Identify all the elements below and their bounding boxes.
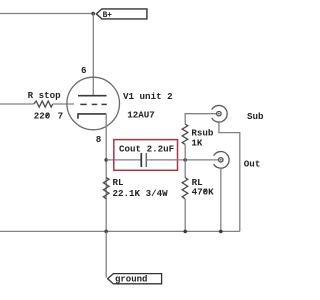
designator label Rsub [191, 128, 214, 139]
capacitor Cout [141, 153, 146, 167]
tube V1 envelope [67, 77, 120, 130]
svg-text:R stop: R stop [28, 90, 62, 101]
svg-text:B+: B+ [103, 12, 113, 20]
value label 470K [192, 186, 215, 197]
tube V1 plate [78, 95, 107, 97]
tube V1 grid (dashed) [80, 103, 107, 105]
designator label RL (right) [192, 177, 204, 188]
wire RL470K down to ground bus [184, 199, 186, 232]
resistor Rsub [182, 124, 188, 144]
wire Cout to output node [146, 159, 218, 161]
tube V1 cathode [78, 114, 106, 119]
wire cathode lead pin 8 down to ground bus [105, 114, 107, 231]
wire output node up to Rsub [184, 144, 186, 160]
wire Out jack sleeve down [220, 168, 222, 231]
wire resistor to grid [53, 103, 74, 105]
label Sub [247, 111, 264, 122]
svg-text:Out: Out [244, 159, 261, 170]
wire plate lead pin 6 [92, 14, 94, 96]
svg-text:ground: ground [115, 274, 147, 284]
node ground junction dot right [219, 230, 223, 234]
value label 22.1K 3/4W [113, 188, 169, 199]
svg-text:220: 220 [34, 111, 51, 122]
wire output node down to RL470K [184, 160, 186, 178]
label Out [244, 159, 261, 170]
wire Rsub up and over to Sub jack [185, 114, 217, 124]
annotation red highlight box [114, 140, 178, 171]
node cathode/cap junction dot [104, 158, 108, 162]
pin 6 label [81, 65, 87, 76]
resistor RL 22.1K [103, 178, 109, 199]
svg-text:7: 7 [58, 111, 64, 122]
svg-text:Cout 2.2uF: Cout 2.2uF [119, 143, 174, 154]
value label 220 [34, 111, 51, 122]
label Cout 2.2uF [119, 143, 174, 154]
connector jack Out [214, 152, 229, 169]
designator label RL (left) [113, 177, 125, 188]
wire ground lead down to tag [105, 231, 107, 277]
pin 8 label [96, 134, 102, 145]
resistor RL 470K [182, 178, 188, 199]
wire Sub jack sleeve down [219, 122, 240, 231]
svg-text:RL: RL [113, 177, 125, 188]
svg-text:Sub: Sub [247, 111, 264, 122]
svg-text:8: 8 [96, 134, 102, 145]
value label 1K [191, 138, 203, 149]
node ground junction dot middle [183, 230, 187, 234]
power tag B+ [96, 9, 147, 20]
svg-text:22.1K 3/4W: 22.1K 3/4W [113, 188, 169, 199]
resistor R stop [34, 101, 53, 107]
svg-text:1K: 1K [191, 138, 203, 149]
wire ground bus [0, 230, 240, 232]
ground tag [108, 274, 162, 285]
designator label V1 unit 2 [123, 91, 173, 102]
node ground junction dot left [104, 230, 108, 234]
wire B+ bus top [0, 13, 93, 15]
pin 7 label [58, 111, 64, 122]
node output junction dot [183, 158, 187, 162]
svg-text:470K: 470K [192, 186, 215, 197]
svg-text:12AU7: 12AU7 [127, 109, 155, 120]
value label 12AU7 [127, 109, 155, 120]
node B+ junction dot [91, 12, 95, 16]
wire grid input from left [0, 103, 34, 105]
connector jack Sub [212, 105, 227, 122]
label R stop [28, 90, 62, 101]
svg-text:6: 6 [81, 65, 87, 76]
wire cathode to Cout [106, 159, 141, 161]
svg-text:V1 unit 2: V1 unit 2 [123, 91, 173, 102]
